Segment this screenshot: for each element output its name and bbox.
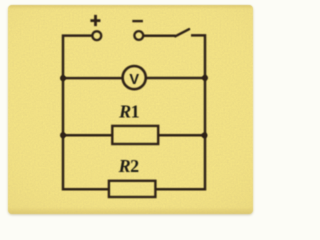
voltmeter V1 body <box>123 66 146 89</box>
junction: right voltmeter node <box>202 75 208 81</box>
switch S blade (open) <box>175 29 189 36</box>
wire: − terminal to switch left contact <box>144 34 176 37</box>
resistor R2 body <box>109 181 155 197</box>
wire: voltmeter branch left <box>63 77 123 80</box>
svg-text:R1: R1 <box>118 102 140 122</box>
label − (negative terminal) <box>132 20 143 22</box>
page texture overlay <box>8 5 253 214</box>
junction: left R1 node <box>60 132 66 138</box>
svg-text:R2: R2 <box>118 156 140 176</box>
junction: left voltmeter node <box>60 75 66 81</box>
terminal post − <box>134 31 143 40</box>
wire: R1 branch left <box>63 134 112 137</box>
terminal post + <box>92 31 101 40</box>
scanned book page (yellow) <box>8 5 253 214</box>
resistor R1 body <box>112 126 158 144</box>
wire: + terminal to top-left corner, left vertical, bottom-left segment <box>63 36 108 190</box>
wire: R1 branch right <box>158 134 205 137</box>
junction: right R1 node <box>202 132 208 138</box>
wire: voltmeter branch right <box>146 77 205 80</box>
svg-text:V: V <box>129 72 139 88</box>
wire: switch right contact to top-right corner, right vertical, bottom-right segment <box>156 35 205 189</box>
label + (positive terminal) <box>90 15 100 26</box>
